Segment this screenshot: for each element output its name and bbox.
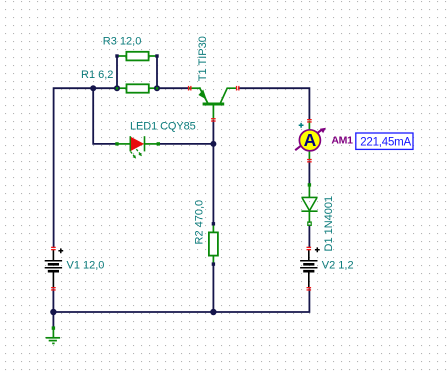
svg-text:R1 6,2: R1 6,2 — [81, 69, 113, 81]
svg-text:LED1 CQY85: LED1 CQY85 — [130, 121, 196, 133]
svg-text:R3 12,0: R3 12,0 — [103, 36, 142, 48]
svg-text:221,45mA: 221,45mA — [360, 136, 411, 148]
svg-text:V1 12,0: V1 12,0 — [67, 259, 105, 271]
svg-text:V2 1,2: V2 1,2 — [322, 259, 354, 271]
svg-text:R2 470,0: R2 470,0 — [194, 200, 206, 245]
svg-text:AM1: AM1 — [331, 135, 353, 147]
svg-text:T1 TIP30: T1 TIP30 — [197, 36, 209, 81]
svg-text:A: A — [304, 130, 317, 150]
svg-text:D1 1N4001: D1 1N4001 — [323, 196, 335, 252]
